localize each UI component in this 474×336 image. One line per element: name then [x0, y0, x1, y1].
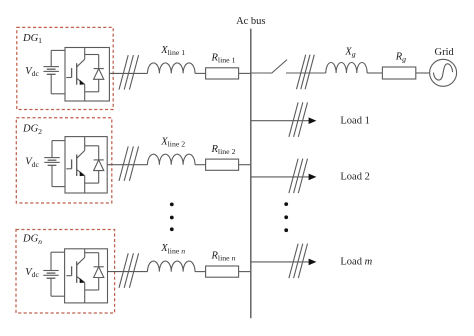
label X_g — [344, 47, 355, 59]
arrow load 1 — [309, 117, 317, 124]
label X_line n — [160, 243, 185, 255]
AC bus — [250, 29, 252, 319]
resistor R_line n — [206, 266, 239, 277]
wire battery bottom (DG1) — [51, 74, 65, 94]
wire battery bottom (DG2) — [52, 165, 65, 186]
svg-text:Load 1: Load 1 — [340, 116, 369, 127]
wire battery bottom (DGn) — [51, 278, 65, 296]
grid source circle — [430, 59, 457, 86]
IGBT (DGn) — [66, 249, 84, 303]
inverter box (DG2) — [65, 137, 107, 193]
wire R_g to grid — [416, 72, 430, 74]
label X_line 1 — [160, 45, 185, 57]
label R_line 2 — [211, 144, 236, 156]
label Grid — [435, 47, 455, 58]
DGn dashed enclosure — [16, 230, 115, 314]
three-phase slashes (line 2) — [119, 146, 139, 181]
wire DG2 output to X_line 2 — [107, 164, 147, 166]
three-phase slashes (load 1) — [289, 102, 308, 136]
inverter box (DG1) — [65, 48, 109, 102]
wire DG1 output to X_line 1 — [109, 72, 147, 74]
label Load 2 — [340, 172, 369, 183]
wire bus to load 1 — [251, 120, 309, 122]
diode (DGn) — [85, 253, 104, 290]
wire X_line n to R_line n — [195, 271, 206, 273]
inverter box (DGn) — [65, 249, 108, 303]
arrow load m — [309, 259, 317, 266]
label Ac bus — [236, 16, 265, 27]
three-phase slashes (load 2) — [289, 159, 308, 194]
inductor X_line n — [148, 261, 196, 272]
wire switch to slashes — [286, 72, 326, 74]
three-phase slashes (grid) — [297, 55, 315, 89]
battery V_dc (DG2) — [44, 158, 59, 166]
three-phase slashes (line 1) — [119, 55, 139, 90]
wire bus to switch — [251, 72, 272, 74]
wire battery top (DGn) — [51, 252, 65, 270]
ellipsis dots right column — [284, 202, 288, 232]
resistor R_line 2 — [206, 159, 239, 170]
wire battery top (DG1) — [51, 50, 65, 66]
wire bus to load m — [251, 261, 309, 263]
label V_dc (DGn) — [25, 267, 39, 279]
wire DGn output to X_line n — [108, 271, 148, 273]
label R_line n — [211, 251, 236, 263]
wire bus to load 2 — [251, 176, 309, 178]
battery V_dc (DG1) — [44, 67, 59, 75]
grid sine wave — [433, 64, 452, 80]
wire X_line 2 to R_line 2 — [195, 164, 206, 166]
label DGn — [22, 234, 42, 246]
svg-text:Load 2: Load 2 — [340, 172, 369, 183]
label R_g — [395, 52, 406, 64]
label R_line 1 — [211, 53, 236, 65]
resistor R_line 1 — [206, 68, 239, 79]
wire X_line 1 to R_line 1 — [195, 72, 206, 74]
label DG2 — [22, 124, 42, 136]
label Load 1 — [340, 116, 369, 127]
wire R_line 2 to bus — [239, 164, 251, 166]
DG2 dashed enclosure — [16, 118, 112, 203]
label V_dc (DG1) — [25, 66, 39, 78]
label X_line 2 — [160, 136, 185, 148]
resistor R_g — [382, 67, 415, 79]
three-phase slashes (load m) — [289, 244, 308, 279]
label DG1 — [22, 33, 42, 45]
battery V_dc (DGn) — [43, 271, 58, 279]
inductor X_line 1 — [148, 63, 196, 74]
wire R_line 1 to bus — [239, 72, 251, 74]
wire R_line n to bus — [239, 271, 251, 273]
svg-text:Grid: Grid — [435, 47, 455, 58]
three-phase slashes (line n) — [119, 253, 139, 287]
IGBT (DG2) — [66, 137, 84, 193]
label Load m — [340, 257, 372, 268]
IGBT (DG1) — [66, 48, 84, 102]
diode (DG1) — [85, 55, 104, 92]
switch blade — [271, 60, 287, 74]
arrow load 2 — [309, 174, 317, 181]
label V_dc (DG2) — [25, 157, 39, 169]
svg-text:Ac bus: Ac bus — [236, 16, 265, 27]
wire battery top (DG2) — [52, 141, 65, 158]
inductor X_g — [326, 62, 367, 73]
wire X_g to R_g — [367, 72, 382, 74]
svg-text:Load m: Load m — [340, 257, 372, 268]
DG1 dashed enclosure — [17, 27, 113, 109]
inductor X_line 2 — [148, 154, 196, 165]
ellipsis dots left column — [170, 203, 174, 232]
diode (DG2) — [85, 146, 104, 183]
